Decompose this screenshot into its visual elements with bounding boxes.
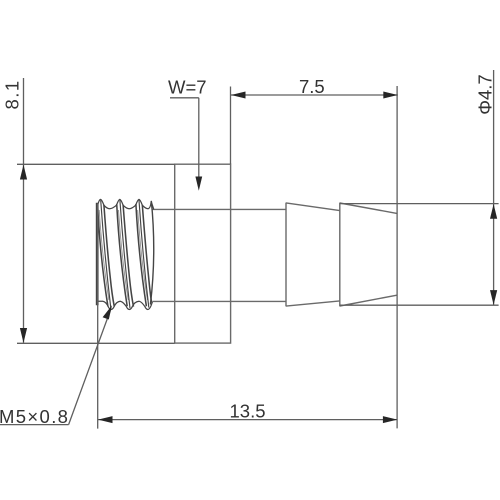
svg-text:8.1: 8.1 — [2, 79, 23, 109]
svg-text:M5×0.8: M5×0.8 — [0, 406, 69, 427]
svg-text:7.5: 7.5 — [299, 76, 325, 97]
svg-text:13.5: 13.5 — [230, 400, 266, 421]
svg-text:W=7: W=7 — [168, 77, 207, 98]
svg-text:Φ4.7: Φ4.7 — [475, 74, 496, 114]
